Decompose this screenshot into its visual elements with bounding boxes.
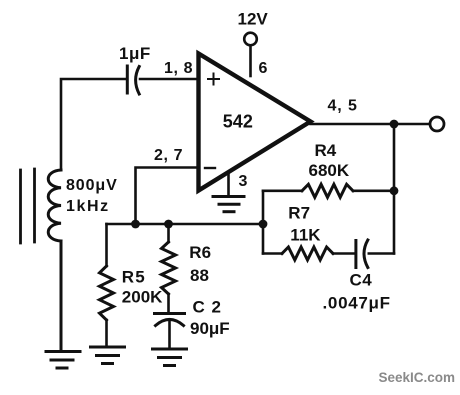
svg-text:680K: 680K [309, 161, 350, 180]
op-amp U1 542 [199, 54, 311, 191]
plus sign [208, 74, 219, 85]
node inverting junction [131, 220, 140, 229]
svg-text:1kHz: 1kHz [66, 198, 110, 215]
minus sign [205, 167, 215, 169]
svg-text:200K: 200K [122, 288, 163, 307]
node R4 right junction [390, 186, 399, 195]
output terminal [430, 117, 444, 131]
output wire [311, 123, 431, 126]
resistor R5 200K [100, 224, 114, 346]
wire inverting input [136, 168, 198, 223]
svg-text:1μF: 1μF [119, 44, 151, 63]
svg-text:C 2: C 2 [193, 298, 222, 317]
svg-text:C4: C4 [350, 271, 373, 290]
svg-text:.0047μF: .0047μF [323, 294, 391, 313]
label 800uV 1kHz [66, 177, 118, 215]
label R4 680K [309, 141, 350, 180]
ground R5 [91, 347, 125, 364]
output junction node [390, 120, 399, 129]
svg-text:3: 3 [239, 173, 248, 190]
svg-text:R7: R7 [288, 204, 310, 223]
ground C2 [153, 349, 187, 366]
transformer core bars [21, 169, 35, 243]
wire capacitor to op-amp plus input [140, 78, 197, 81]
ground pin 3 [213, 197, 244, 212]
label R5 200K [122, 268, 163, 307]
node feedback junction [259, 220, 268, 229]
svg-text:1, 8: 1, 8 [164, 60, 193, 77]
svg-text:11K: 11K [290, 226, 321, 245]
svg-text:R5: R5 [122, 268, 146, 287]
label C2 90uF [190, 298, 230, 339]
svg-text:800μV: 800μV [66, 177, 118, 194]
ground coil [46, 241, 80, 368]
resistor R6 88 [162, 224, 176, 312]
svg-text:12V: 12V [238, 10, 269, 29]
wire feedback left vertical [262, 191, 265, 254]
capacitor C2 90uF [155, 314, 185, 349]
resistor R4 680K [263, 184, 394, 197]
label R7 11K [288, 204, 321, 245]
resistor R7 11K [263, 247, 355, 260]
capacitor C1 1uF [127, 66, 139, 94]
capacitor C4 .0047uF [356, 240, 394, 268]
12V supply terminal [244, 33, 257, 46]
svg-text:R6: R6 [189, 243, 211, 262]
svg-text:90μF: 90μF [190, 319, 230, 338]
svg-text:88: 88 [190, 266, 209, 285]
wire coil top to capacitor [61, 79, 126, 170]
wire bottom rail [107, 223, 264, 226]
label R6 88 [189, 243, 211, 285]
svg-text:R4: R4 [315, 141, 337, 160]
label C4 .0047uF [323, 271, 391, 313]
svg-text:2, 7: 2, 7 [154, 147, 183, 164]
inductor L1 signal source coil [48, 170, 61, 241]
svg-text:SeekIC.com: SeekIC.com [379, 370, 456, 385]
node R6 junction [164, 220, 173, 229]
wire pin 6 to supply [249, 46, 252, 76]
svg-text:6: 6 [259, 60, 268, 77]
svg-text:4, 5: 4, 5 [328, 98, 358, 115]
wire feedback right vertical [393, 124, 396, 254]
wire pin 3 [227, 172, 230, 195]
svg-text:542: 542 [223, 112, 253, 132]
